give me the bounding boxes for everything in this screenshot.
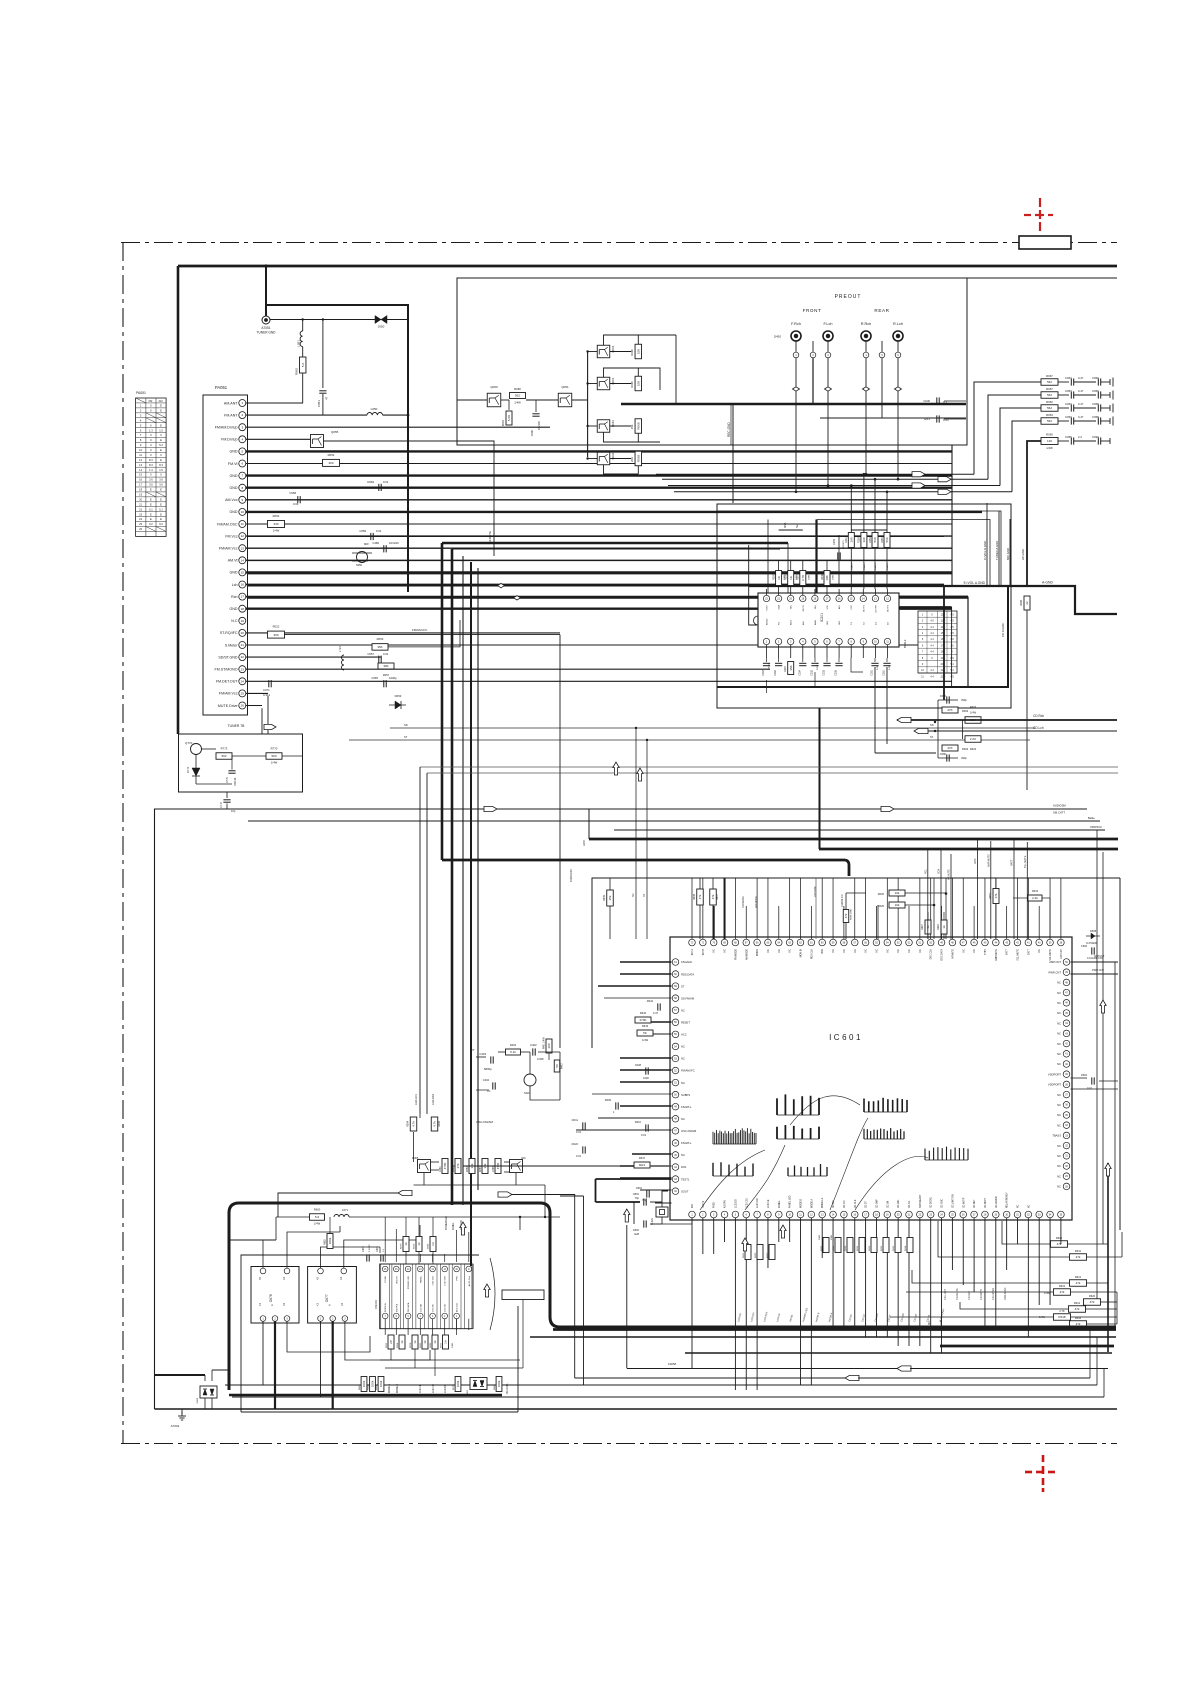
resistor R022	[268, 631, 285, 638]
wire pin6 PA051	[246, 463, 952, 465]
wire D1 down	[874, 667, 876, 753]
svg-text:9.2: 9.2	[149, 522, 153, 526]
svg-text:R663: R663	[359, 1384, 361, 1390]
svg-text:AINR: AINR	[814, 619, 817, 625]
capacitor C651 bottom	[938, 757, 958, 759]
svg-text:AUDIO5M: AUDIO5M	[1053, 804, 1066, 808]
resistor R633	[1028, 895, 1042, 901]
wire pin20 ifc run	[285, 634, 561, 636]
pin 6 of CN601 bottom	[394, 1313, 400, 1319]
antenna terminal A7051	[262, 316, 270, 324]
wire pin24 PA051	[246, 680, 952, 682]
svg-text:0.01: 0.01	[576, 1130, 582, 1134]
svg-text:NC: NC	[1057, 1021, 1061, 1025]
pin 59 of IC601 left	[672, 983, 679, 990]
svg-text:R680: R680	[430, 1342, 432, 1348]
svg-text:AM.MODE: AM.MODE	[745, 949, 748, 960]
svg-text:E: E	[160, 497, 162, 501]
svg-text:D069: D069	[367, 480, 374, 484]
svg-text:RDS.CLK: RDS.CLK	[811, 949, 813, 959]
resistor R066	[610, 351, 631, 353]
svg-text:R057: R057	[1046, 387, 1053, 391]
wire long run y537	[247, 536, 944, 538]
svg-text:S.Meter: S.Meter	[225, 643, 238, 647]
svg-text:CN601: CN601	[374, 1300, 378, 1309]
svg-text:VDD: VDD	[822, 949, 824, 954]
capacitor C071	[268, 680, 270, 687]
svg-text:E28: E28	[634, 1232, 639, 1236]
up arrow 4	[780, 1225, 786, 1238]
svg-text:C261: C261	[883, 669, 886, 675]
pin 4 of CN601 bottom	[418, 1313, 424, 1319]
svg-text:1/4W: 1/4W	[1039, 1316, 1045, 1319]
svg-text:NC: NC	[1057, 1113, 1061, 1117]
svg-text:FM.Vt: FM.Vt	[228, 462, 238, 466]
waveform figure 4	[864, 1138, 904, 1140]
wire IC601 left lead	[620, 1177, 672, 1179]
pin 32 of IC601 right	[1063, 1142, 1070, 1149]
svg-text:300: 300	[547, 1043, 551, 1048]
svg-text:PANEL.LED: PANEL.LED	[789, 1195, 792, 1208]
svg-text:16: 16	[241, 583, 245, 587]
svg-text:ACC: ACC	[681, 1033, 687, 1037]
pin 2 of CN601 bottom	[442, 1313, 448, 1319]
wire bundle v x452	[451, 549, 454, 1205]
svg-text:MODE.B: MODE.B	[397, 1383, 399, 1393]
resistor 2.7K	[1054, 1314, 1071, 1321]
svg-text:L713: L713	[338, 646, 342, 652]
svg-text:NC: NC	[681, 1045, 685, 1049]
pin 1 of IC601 bottom	[689, 1211, 696, 1218]
svg-text:IC201: IC201	[820, 613, 824, 622]
wire pin18 PA051	[246, 608, 952, 610]
capacitor C267	[766, 658, 768, 662]
svg-text:RDS.DATA: RDS.DATA	[681, 972, 694, 976]
svg-text:4.7k: 4.7k	[433, 1121, 437, 1127]
svg-text:REAR: REAR	[874, 308, 889, 313]
pin 18 of IC201	[812, 595, 818, 601]
svg-text:E: E	[150, 497, 152, 501]
svg-text:8.3: 8.3	[149, 463, 153, 467]
svg-text:F.Lch: F.Lch	[823, 322, 832, 326]
svg-text:1k: 1k	[417, 1242, 421, 1246]
box IC201 section mid	[718, 511, 1001, 586]
pin 8 of IC201	[848, 638, 854, 644]
svg-text:10: 10	[241, 510, 245, 514]
pin 52 of IC601 left	[672, 1067, 679, 1074]
pin 30 of IC601 bottom	[1003, 1211, 1010, 1218]
svg-text:1A: 1A	[431, 1242, 435, 1246]
svg-text:CD.LW1: CD.LW1	[898, 1199, 900, 1208]
svg-text:D677: D677	[441, 1342, 443, 1348]
wire pin26 PA051	[246, 705, 262, 707]
svg-text:LCD.CE: LCD.CE	[420, 1384, 422, 1393]
wire pin23 PA051	[246, 668, 770, 670]
wire vertical mutes	[927, 848, 929, 939]
svg-text:5.1: 5.1	[149, 507, 153, 511]
pin 68 of IC601 top	[732, 939, 739, 946]
svg-text:21: 21	[241, 643, 245, 647]
pin 15 of IC601 bottom	[841, 1211, 848, 1218]
wire IC601 top stubs	[691, 878, 693, 939]
capacitor C068	[1097, 404, 1099, 411]
svg-text:10V470: 10V470	[843, 540, 845, 548]
svg-text:C080: C080	[530, 429, 534, 436]
resistor R625	[1051, 1241, 1068, 1248]
svg-text:1k: 1k	[423, 1340, 427, 1344]
pin 53 of IC601 top	[895, 939, 902, 946]
svg-text:CD.LRVER: CD.LRVER	[996, 1196, 998, 1208]
svg-text:NC: NC	[876, 949, 878, 953]
svg-text:CR11: CR11	[572, 1118, 579, 1122]
wire ladder links	[1068, 1243, 1108, 1245]
pin 9 of IC601 bottom	[776, 1211, 783, 1218]
svg-text:C057: C057	[367, 652, 374, 656]
svg-text:SD/ST.GND: SD/ST.GND	[218, 655, 238, 659]
wire divider row	[430, 1161, 439, 1163]
wire misc bottom mesh	[275, 1217, 277, 1240]
svg-text:C404: C404	[483, 1078, 490, 1082]
resistor R057	[378, 663, 394, 669]
wire bundle v x478	[477, 568, 479, 1190]
pin 16 of CN601 top	[381, 1264, 390, 1329]
capacitor C770	[228, 770, 235, 772]
wire pin1 PA051	[246, 402, 303, 404]
svg-text:OUTF1: OUTF1	[863, 604, 865, 612]
svg-text:RATT: RATT	[1011, 859, 1014, 866]
svg-text:1.3: 1.3	[149, 468, 153, 472]
wire bottom boundary	[155, 1408, 1118, 1410]
resistor R637	[710, 889, 717, 905]
wire heavy bus y1353	[685, 1352, 1112, 1354]
svg-text:R402: R402	[510, 1043, 517, 1047]
pin 45 of IC601 top	[982, 939, 989, 946]
svg-text:R396: R396	[438, 1120, 441, 1127]
resistor R394	[419, 1114, 421, 1118]
svg-text:TUNER GND: TUNER GND	[257, 331, 277, 335]
resistor R243	[824, 571, 830, 586]
resistor R647	[463, 1165, 634, 1167]
capacitor C065	[383, 680, 385, 687]
svg-text:C059: C059	[359, 529, 366, 533]
svg-text:E: E	[160, 512, 162, 516]
svg-text:1/4W: 1/4W	[642, 1038, 649, 1042]
capacitor C080	[535, 400, 537, 412]
svg-text:FM/AM.IFC: FM/AM.IFC	[841, 894, 844, 907]
wire pin13 PA051	[246, 547, 952, 549]
svg-text:C801: C801	[633, 1192, 640, 1196]
svg-text:ST: ST	[404, 735, 408, 739]
wire aux drop 2	[426, 773, 428, 1114]
svg-text:AM.Vcc: AM.Vcc	[225, 498, 238, 502]
svg-text:R641: R641	[1075, 1249, 1082, 1253]
svg-text:SCL.MUTE: SCL.MUTE	[1018, 949, 1020, 961]
svg-text:0-312: 0-312	[263, 693, 271, 697]
pin 45 of IC601 right	[1063, 1010, 1070, 1017]
connector PA051 body	[203, 395, 248, 715]
svg-text:AM.MODE: AM.MODE	[755, 896, 758, 908]
capacitor D069	[378, 484, 380, 491]
svg-text:PRV: PRV	[457, 1275, 459, 1280]
svg-text:NC: NC	[844, 949, 846, 953]
wire CD.Rch	[897, 719, 1117, 721]
resistor R600	[310, 1214, 325, 1221]
pin 28 of IC601 bottom	[982, 1211, 989, 1218]
svg-text:R605: R605	[821, 1245, 823, 1251]
svg-text:R394: R394	[407, 1120, 410, 1127]
box IC601 section	[592, 878, 1120, 1048]
pin 58 of IC601 top	[841, 939, 848, 946]
svg-text:NC: NC	[1057, 1174, 1061, 1178]
svg-text:NC: NC	[1057, 1052, 1061, 1056]
svg-text:E: E	[150, 517, 152, 521]
wire D678 K3 elbow	[287, 1321, 370, 1352]
component column D680	[430, 1237, 436, 1252]
svg-text:FM/AM.IFC: FM/AM.IFC	[412, 628, 428, 632]
svg-text:DOC.CLK: DOC.CLK	[931, 949, 933, 960]
resistor R603 top	[965, 717, 981, 724]
svg-text:1k: 1k	[413, 1340, 417, 1344]
preout terminal 1	[795, 341, 797, 352]
pin 2 of IC201	[775, 638, 781, 644]
wire riser rc3	[1000, 408, 1041, 486]
registration mark top right	[1039, 198, 1041, 207]
arrow on right vertical	[1100, 1000, 1106, 1013]
wire pin21 branch	[388, 620, 460, 647]
svg-text:R647: R647	[639, 1156, 646, 1160]
wire pin3 PA051	[246, 426, 550, 428]
svg-text:0.01: 0.01	[376, 529, 382, 533]
svg-text:VDD.5V: VDD.5V	[396, 1275, 398, 1283]
svg-text:C267: C267	[762, 669, 765, 675]
pin 42 of IC601 top	[1014, 939, 1021, 946]
pin 50 of IC601 left	[672, 1091, 679, 1098]
svg-text:3.6: 3.6	[159, 478, 163, 482]
wire r626 links	[905, 892, 946, 894]
wire pin7 PA051	[246, 474, 952, 476]
svg-text:NC: NC	[681, 1081, 685, 1085]
wire lower run 1378	[575, 1377, 845, 1379]
svg-text:D053: D053	[395, 694, 402, 698]
wire pin9 PA051	[246, 499, 952, 501]
wire Q060 input	[457, 399, 487, 401]
capacitor C650 top	[938, 699, 958, 701]
svg-text:CD.RET: CD.RET	[974, 1199, 976, 1208]
svg-text:D678: D678	[269, 1294, 273, 1302]
wire feeds to IC201 resistors	[850, 486, 852, 534]
pin 48 of IC601 top	[949, 939, 956, 946]
svg-text:E=VOL.A.GND: E=VOL.A.GND	[964, 581, 986, 585]
resistor R057	[1041, 392, 1058, 399]
wire bus y830	[614, 829, 1105, 831]
svg-text:0.01: 0.01	[576, 1154, 582, 1158]
svg-text:NC: NC	[866, 949, 868, 953]
svg-text:PA051: PA051	[215, 385, 228, 390]
capacitor D644	[657, 1003, 659, 1010]
resistor R065	[610, 383, 631, 385]
svg-text:562: 562	[1047, 380, 1052, 384]
pin 24 of IC601 bottom	[938, 1211, 945, 1218]
svg-text:LCD.DB: LCD.DB	[420, 1303, 422, 1312]
capacitor C253	[826, 658, 828, 662]
pin 10 of IC201	[872, 638, 878, 644]
svg-text:2.2k: 2.2k	[1032, 896, 1038, 900]
svg-text:5.6K: 5.6K	[507, 415, 511, 421]
svg-text:RELAY.READY: RELAY.READY	[1006, 1192, 1009, 1208]
svg-text:1A: 1A	[444, 1340, 448, 1344]
resistor R207	[800, 571, 806, 586]
capacitor C057	[378, 656, 380, 663]
pin 49 of IC601 left	[672, 1103, 679, 1110]
svg-text:2SA4-7: 2SA4-7	[874, 562, 877, 570]
svg-text:16V100: 16V100	[537, 420, 541, 430]
wire preout ground bus	[621, 403, 966, 405]
lower resistor row	[361, 1377, 367, 1392]
capacitor C209	[838, 535, 840, 585]
pin 6 of IC601 bottom	[743, 1211, 750, 1218]
wire IC201 bottom mesh	[766, 680, 768, 693]
svg-text:R614: R614	[905, 1245, 907, 1251]
svg-text:R612: R612	[1074, 1301, 1081, 1305]
resistor R052	[1041, 405, 1058, 412]
wire heavy bus y1346	[940, 1345, 1114, 1348]
svg-text:R600: R600	[314, 1208, 321, 1212]
svg-text:C402: C402	[530, 1043, 537, 1047]
svg-text:562: 562	[515, 394, 520, 398]
svg-text:MON.IN: MON.IN	[801, 949, 803, 958]
svg-text:C051: C051	[317, 400, 321, 408]
svg-text:VCC: VCC	[851, 605, 853, 610]
pin 58 of IC601 left	[672, 995, 679, 1002]
svg-text:1K: 1K	[777, 576, 781, 580]
box IC201 section outer	[717, 504, 1011, 708]
pin 16 of IC201	[836, 595, 842, 601]
svg-text:ST: ST	[930, 735, 934, 739]
ground A7002	[181, 1409, 183, 1414]
svg-text:D365: D365	[412, 1156, 419, 1160]
resistor R605 bottom	[942, 745, 958, 751]
resistor R062	[323, 459, 340, 466]
pin 66 of IC601 top	[754, 939, 761, 946]
svg-text:R627: R627	[921, 924, 924, 930]
capacitor C611	[582, 1122, 584, 1129]
wire long run y524	[285, 523, 950, 525]
svg-text:C369: C369	[440, 1166, 442, 1172]
label SD wire	[390, 727, 1035, 729]
pin 51 of IC601 left	[672, 1079, 679, 1086]
wire cn601 bottom stubs	[384, 1319, 386, 1335]
wire feeder x768	[767, 520, 769, 595]
svg-text:CD.DT: CD.DT	[866, 1200, 868, 1208]
svg-text:R382: R382	[467, 1166, 469, 1172]
svg-text:NC: NC	[681, 1057, 685, 1061]
svg-text:FM.DATA: FM.DATA	[407, 1302, 410, 1312]
svg-text:MUTE: MUTE	[803, 604, 805, 611]
wire Q055 out	[324, 441, 495, 556]
svg-text:10p: 10p	[231, 809, 236, 813]
inductor L713	[342, 655, 345, 670]
svg-text:9.2: 9.2	[159, 522, 163, 526]
resistor row below CN601	[388, 1335, 394, 1349]
pin 13 of IC201	[872, 595, 878, 601]
svg-text:NC: NC	[779, 949, 781, 953]
svg-text:47k: 47k	[1075, 1307, 1080, 1311]
resistor R052b	[268, 521, 285, 528]
svg-text:TUNER 7B: TUNER 7B	[228, 724, 246, 728]
svg-text:R.Lch: R.Lch	[893, 322, 903, 326]
pin 43 of IC601 left	[672, 1176, 679, 1183]
capacitor C058	[297, 496, 299, 503]
resistor R251	[848, 533, 854, 548]
wire long run y598	[247, 597, 968, 599]
wire D677 K4 up	[344, 1225, 420, 1268]
svg-text:MODE.B: MODE.B	[801, 1198, 803, 1208]
pin 48 of IC601 right	[1063, 979, 1070, 986]
svg-text:E: E	[160, 458, 162, 462]
svg-text:AUX1.LD: AUX1.LD	[456, 1302, 459, 1312]
svg-text:CD.LRVER: CD.LRVER	[992, 1288, 995, 1300]
svg-text:4.7k: 4.7k	[412, 1121, 416, 1127]
svg-text:R068: R068	[637, 422, 641, 430]
capacitor C606	[1091, 947, 1093, 954]
svg-text:16V100: 16V100	[234, 777, 237, 786]
wire pin22 PA051	[246, 656, 381, 658]
svg-text:13: 13	[241, 546, 245, 550]
svg-text:10K: 10K	[637, 349, 641, 354]
transistor Q060	[487, 393, 501, 407]
svg-text:NC: NC	[1057, 1062, 1061, 1066]
svg-text:N.C: N.C	[231, 619, 238, 623]
svg-text:5.1k: 5.1k	[510, 1050, 516, 1054]
svg-text:FM/AM.IFC: FM/AM.IFC	[681, 1069, 695, 1073]
svg-text:C058: C058	[1092, 415, 1099, 419]
svg-text:300: 300	[328, 461, 333, 465]
up arrow 2	[484, 1284, 490, 1297]
pin 63 of IC601 top	[786, 939, 793, 946]
svg-text:SDA: SDA	[938, 869, 941, 874]
svg-text:AC.GND: AC.GND	[1021, 549, 1025, 560]
svg-text:50V3.3: 50V3.3	[817, 662, 819, 670]
wire top rail	[178, 265, 1117, 268]
svg-text:R623: R623	[970, 747, 977, 751]
waveform figure 5	[925, 1159, 968, 1161]
svg-text:C606: C606	[1081, 945, 1088, 948]
svg-text:A7051: A7051	[261, 326, 270, 330]
resistor R612	[1069, 1306, 1086, 1313]
vertical riser x819	[819, 708, 821, 849]
svg-text:R606: R606	[869, 1245, 871, 1251]
resistor R396	[431, 1117, 438, 1131]
pin 38 of IC601 top	[1058, 939, 1065, 946]
wire pin25 PA051	[246, 692, 268, 694]
wire IC601 left lead	[620, 1105, 672, 1107]
svg-text:Lch: Lch	[232, 583, 238, 587]
wire D677 K3 elbow	[345, 1321, 430, 1360]
svg-text:C063: C063	[1065, 402, 1072, 406]
svg-text:GND: GND	[923, 399, 931, 403]
svg-text:R050: R050	[377, 637, 384, 641]
svg-text:FM.ANT: FM.ANT	[224, 413, 238, 417]
svg-text:100k: 100k	[497, 1380, 501, 1387]
pin 60 of IC601 top	[819, 939, 826, 946]
svg-text:10k: 10k	[895, 903, 900, 907]
svg-text:NC: NC	[909, 949, 911, 953]
svg-text:MONO: MONO	[757, 949, 759, 956]
tag arrows bottom	[398, 1190, 412, 1195]
svg-text:C057: C057	[1065, 389, 1072, 393]
svg-text:0.1: 0.1	[487, 1089, 491, 1093]
pin 26 of IC601 bottom	[960, 1211, 967, 1218]
